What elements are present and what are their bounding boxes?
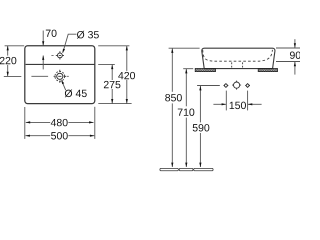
dim 150 right arrow <box>248 103 253 105</box>
label 500 <box>51 132 68 139</box>
dim 150 right line <box>248 103 262 105</box>
dim 710 lower line <box>185 118 187 167</box>
dim 90 extension upper <box>276 47 300 49</box>
dim 70 upper arrow <box>42 41 44 46</box>
dim 420 upper arrow <box>126 46 128 51</box>
dim 850 upper arrow <box>171 48 173 53</box>
bowl interior dashed line <box>203 50 273 61</box>
extension line bottom-right (for 275/420 dims) <box>98 103 131 105</box>
dim 710 lower arrow <box>185 163 187 168</box>
leader arrow at drain <box>61 80 64 84</box>
extension line drain centerline left (for 220 dim) <box>4 75 22 77</box>
label Ø45 <box>65 89 87 97</box>
label 850 <box>165 94 182 101</box>
drain hole dashed ring <box>55 71 65 81</box>
extension line counter level (for 710 dim) <box>183 68 193 70</box>
dim 850 lower arrow <box>171 163 173 168</box>
counter slab left hatched <box>195 69 215 72</box>
extension line top-left (for 220 dim) <box>5 45 25 47</box>
basin outer rect <box>25 46 95 104</box>
dim 275 upper line <box>111 65 113 80</box>
basin inner back edge line <box>26 63 95 65</box>
label 420 <box>118 72 135 79</box>
extension line top-right (for 420 dim) <box>98 45 129 47</box>
fixing hole right small <box>246 84 249 87</box>
extension line bottom-left vertical (for 480/500 dims) <box>24 107 26 139</box>
dim 70 lower arrow <box>42 55 44 60</box>
dim 220 upper arrow <box>7 46 9 51</box>
dim 420 lower arrow <box>126 99 128 104</box>
dim 220 upper line <box>7 46 9 56</box>
dim 220 lower line <box>7 65 9 76</box>
floor bar left <box>160 168 179 170</box>
dim 70 lower line <box>42 56 44 70</box>
fixing hole center large <box>234 82 240 88</box>
drain centerline right dash <box>67 75 69 77</box>
faucet hole Ø35 circle <box>58 53 63 58</box>
basin bottom line <box>204 68 273 70</box>
dim 590 upper arrow <box>199 86 201 91</box>
label 70 <box>46 30 57 37</box>
dim 275 upper arrow <box>111 65 113 70</box>
label Ø35 <box>77 31 99 39</box>
label 275 <box>104 81 121 88</box>
dim 90 lower line <box>294 62 296 75</box>
dim 420 upper line <box>126 46 128 71</box>
leader arrow at faucet hole <box>62 49 65 54</box>
drain hole Ø45 circle <box>57 73 63 79</box>
dim 480 right line <box>68 121 93 123</box>
faucet hole cross ticks <box>56 51 64 59</box>
label 480 <box>51 119 68 126</box>
faucet hole centerline left dash <box>51 54 53 56</box>
dim 500 left arrow <box>25 135 30 137</box>
dim 590 lower arrow <box>199 163 201 168</box>
drain outlet dashed right <box>242 62 244 68</box>
label 150 <box>230 102 246 109</box>
dim 420 lower line <box>126 80 128 104</box>
dim 90 upper arrow <box>294 43 296 48</box>
dim 850 lower line <box>171 103 173 167</box>
dim 90 lower arrow <box>294 62 296 66</box>
dim 90 upper line <box>294 39 296 47</box>
dim 150 extension right vertical <box>247 91 249 111</box>
dim 500 right arrow <box>90 135 95 137</box>
fixing holes centerline <box>197 85 220 87</box>
floor bar middle <box>179 168 193 170</box>
label 90 <box>290 51 301 58</box>
dim 150 extension left vertical <box>225 91 227 111</box>
dim 500 right line <box>68 135 94 137</box>
basin side profile <box>202 48 275 68</box>
dim 500 left line <box>26 135 51 137</box>
extension line rim level (for 850 dim) <box>169 47 200 49</box>
drain centerline mid segment <box>31 75 48 77</box>
dim 480 left arrow <box>26 121 31 123</box>
dim 710 upper line <box>185 69 187 106</box>
counter slab right hatched <box>258 69 277 72</box>
extension line bottom-right vertical (for 480/500 dims) <box>94 107 96 139</box>
dim 275 lower line <box>111 89 113 103</box>
floor bar right <box>194 168 213 170</box>
label 710 <box>178 108 195 115</box>
dim 70 upper line <box>42 31 44 46</box>
dim 150 left arrow <box>222 103 227 105</box>
dim 480 left line <box>26 121 50 123</box>
dim 150 left line <box>213 103 226 105</box>
label 590 <box>193 124 210 131</box>
drain hole cross ticks <box>54 70 66 83</box>
dim 850 upper line <box>171 49 173 92</box>
leader to Ø35 label <box>63 34 77 52</box>
fixing hole left small <box>225 84 228 87</box>
drain outlet dashed left <box>231 62 233 68</box>
extension line inner-edge-right (for 275 dim) <box>98 63 115 65</box>
leader to Ø45 label <box>62 81 66 91</box>
dim 275 lower arrow <box>111 99 113 104</box>
dim 220 lower arrow <box>7 72 9 77</box>
dim 590 lower line <box>199 133 201 167</box>
dim 590 upper line <box>199 86 201 122</box>
dim 710 upper arrow <box>185 69 187 74</box>
dim 90 extension lower <box>276 61 300 63</box>
dim 480 right arrow <box>89 121 94 123</box>
label 220 <box>0 57 16 64</box>
